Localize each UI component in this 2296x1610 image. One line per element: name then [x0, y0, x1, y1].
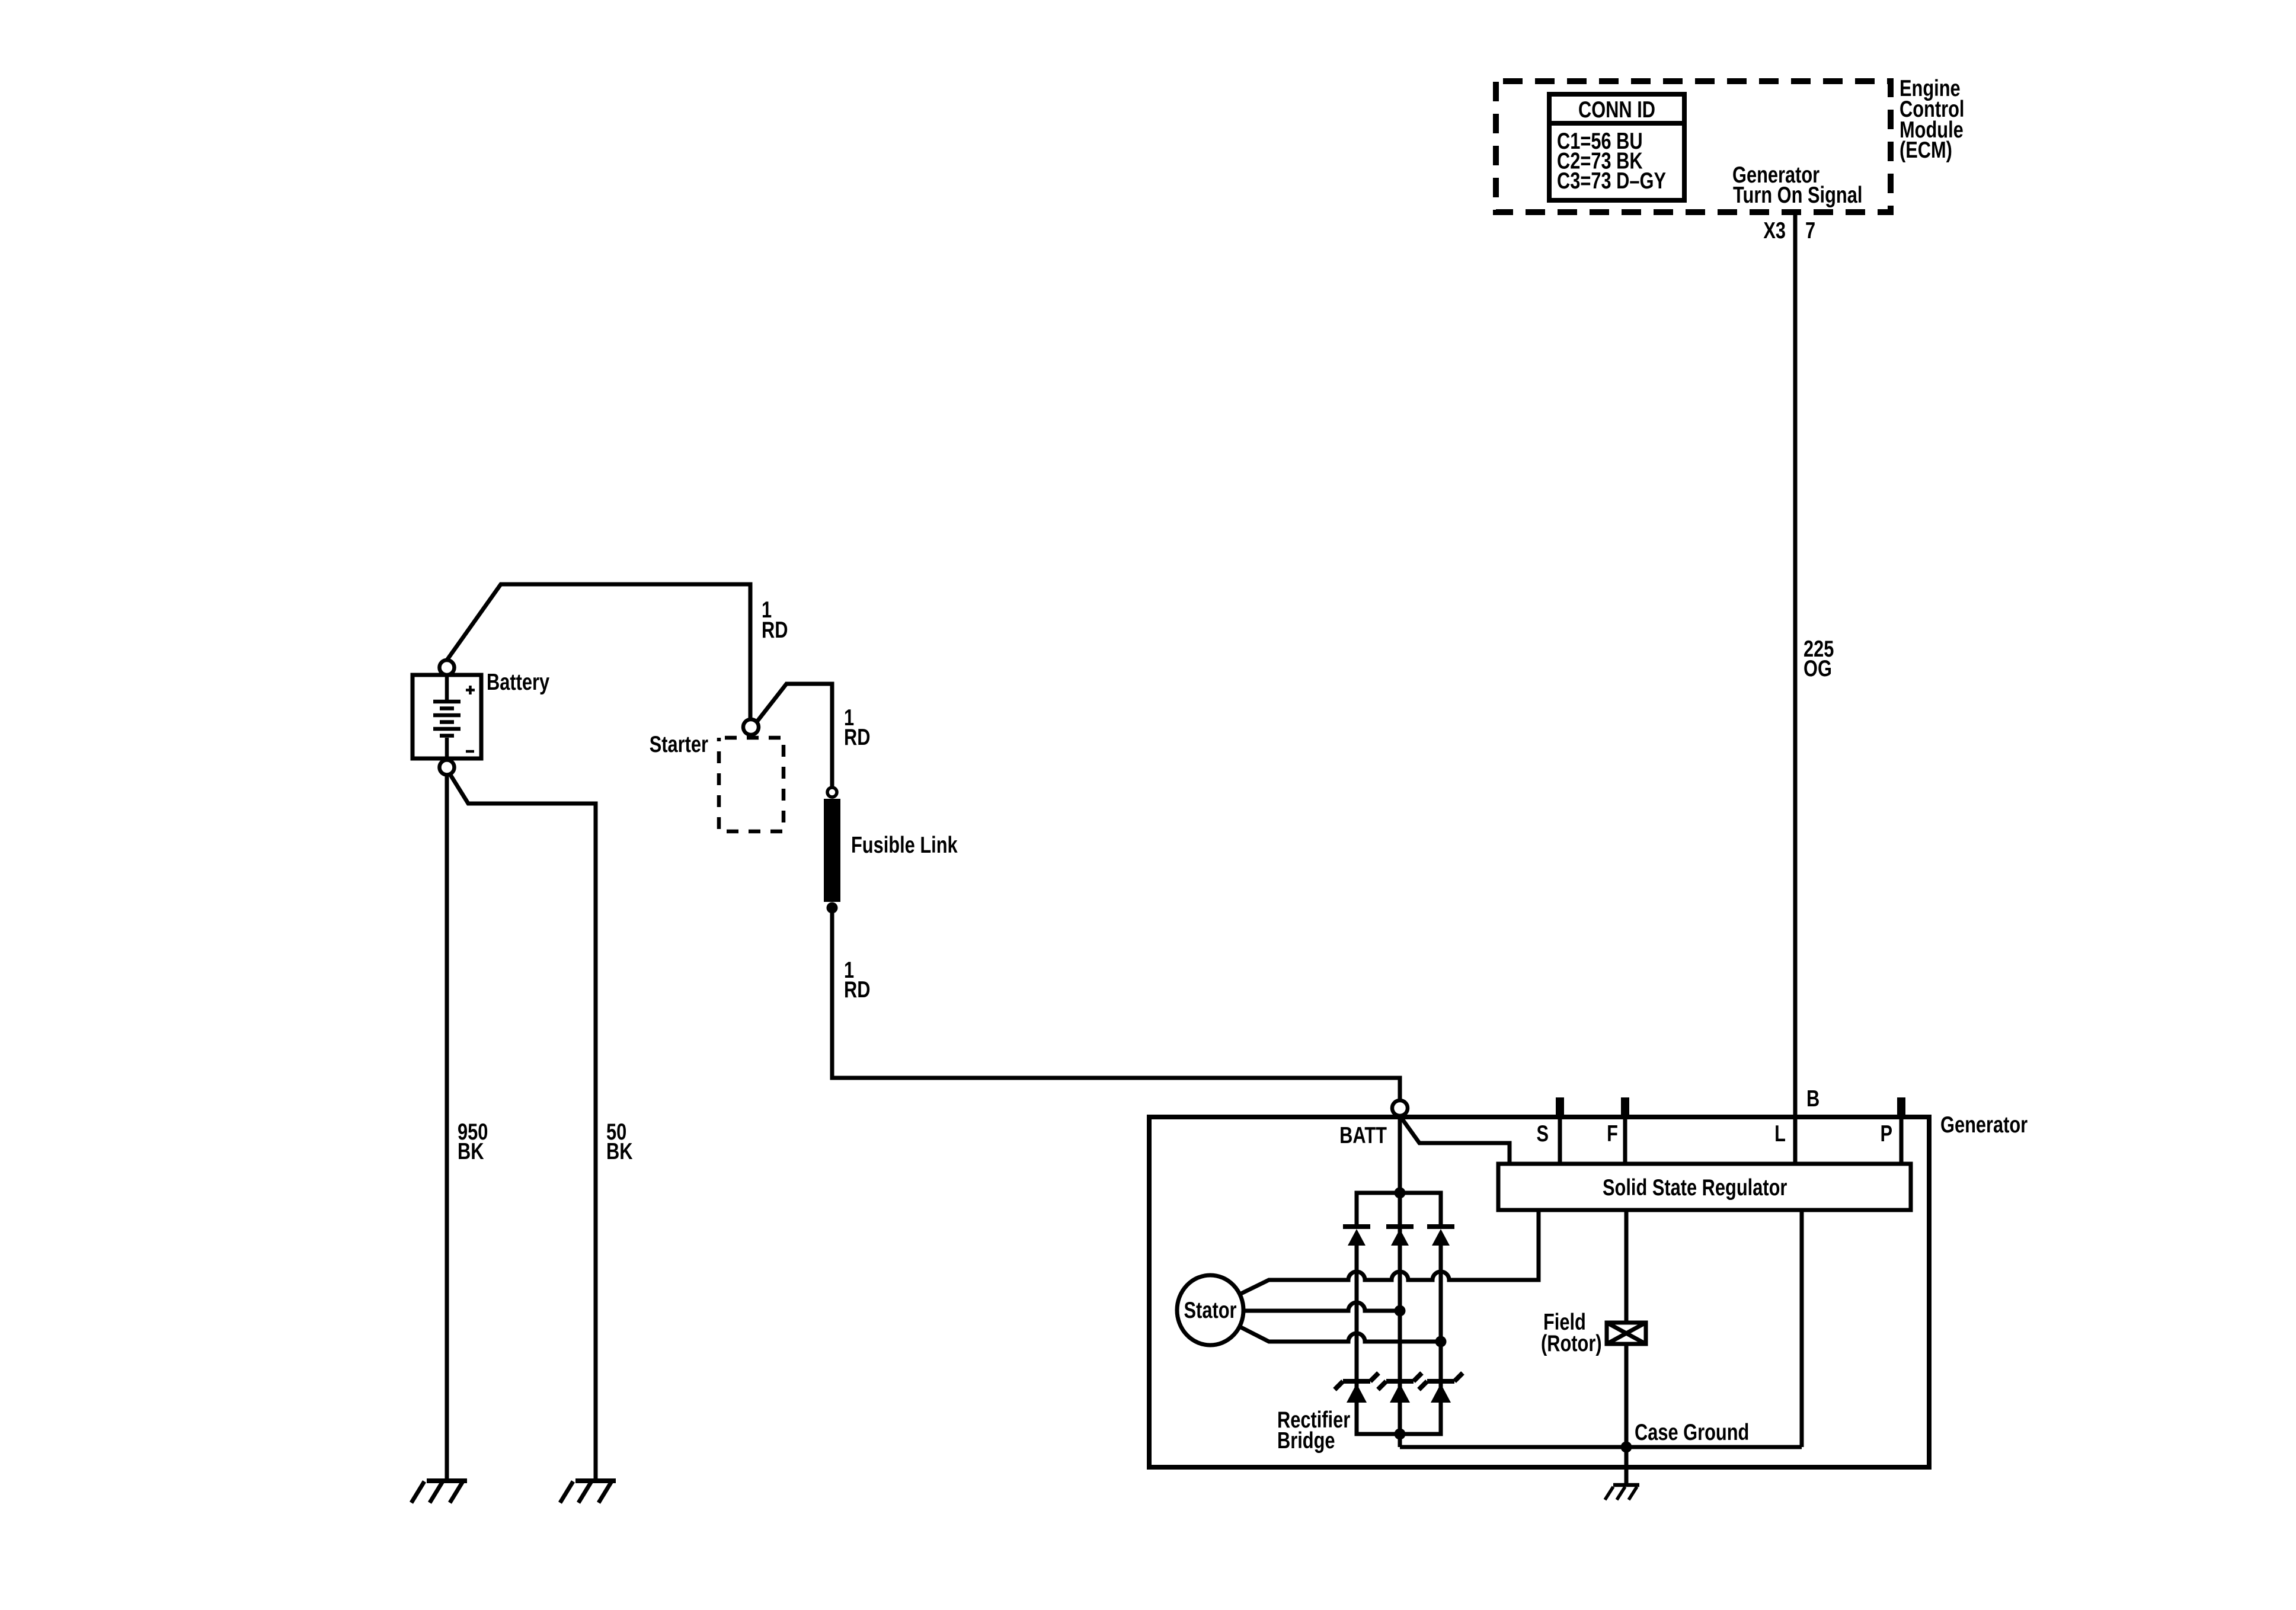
svg-text:(Rotor): (Rotor) [1541, 1331, 1602, 1356]
svg-text:Turn On Signal: Turn On Signal [1733, 183, 1862, 208]
svg-text:Stator: Stator [1184, 1298, 1237, 1323]
svg-text:OG: OG [1803, 656, 1832, 681]
svg-text:BK: BK [458, 1139, 484, 1164]
svg-text:RD: RD [762, 617, 788, 643]
svg-text:F: F [1607, 1121, 1618, 1147]
svg-text:X3: X3 [1763, 218, 1786, 244]
svg-text:RD: RD [844, 977, 870, 1003]
svg-text:S: S [1536, 1121, 1549, 1147]
svg-text:Case Ground: Case Ground [1635, 1420, 1749, 1445]
svg-text:Solid State Regulator: Solid State Regulator [1603, 1175, 1787, 1201]
svg-text:BATT: BATT [1339, 1123, 1387, 1148]
svg-text:B: B [1806, 1086, 1819, 1112]
svg-text:Bridge: Bridge [1277, 1428, 1335, 1454]
svg-text:7: 7 [1805, 218, 1815, 244]
svg-text:BK: BK [606, 1139, 633, 1164]
svg-text:Battery: Battery [487, 670, 550, 695]
svg-text:(ECM): (ECM) [1900, 137, 1952, 163]
svg-text:L: L [1774, 1121, 1786, 1147]
svg-text:Generator: Generator [1940, 1112, 2028, 1138]
svg-text:CONN ID: CONN ID [1578, 97, 1655, 123]
svg-text:RD: RD [844, 725, 870, 750]
svg-text:Fusible Link: Fusible Link [851, 833, 958, 858]
svg-text:P: P [1880, 1121, 1892, 1147]
svg-text:C3=73 D–GY: C3=73 D–GY [1557, 168, 1666, 194]
svg-text:Starter: Starter [650, 732, 709, 757]
